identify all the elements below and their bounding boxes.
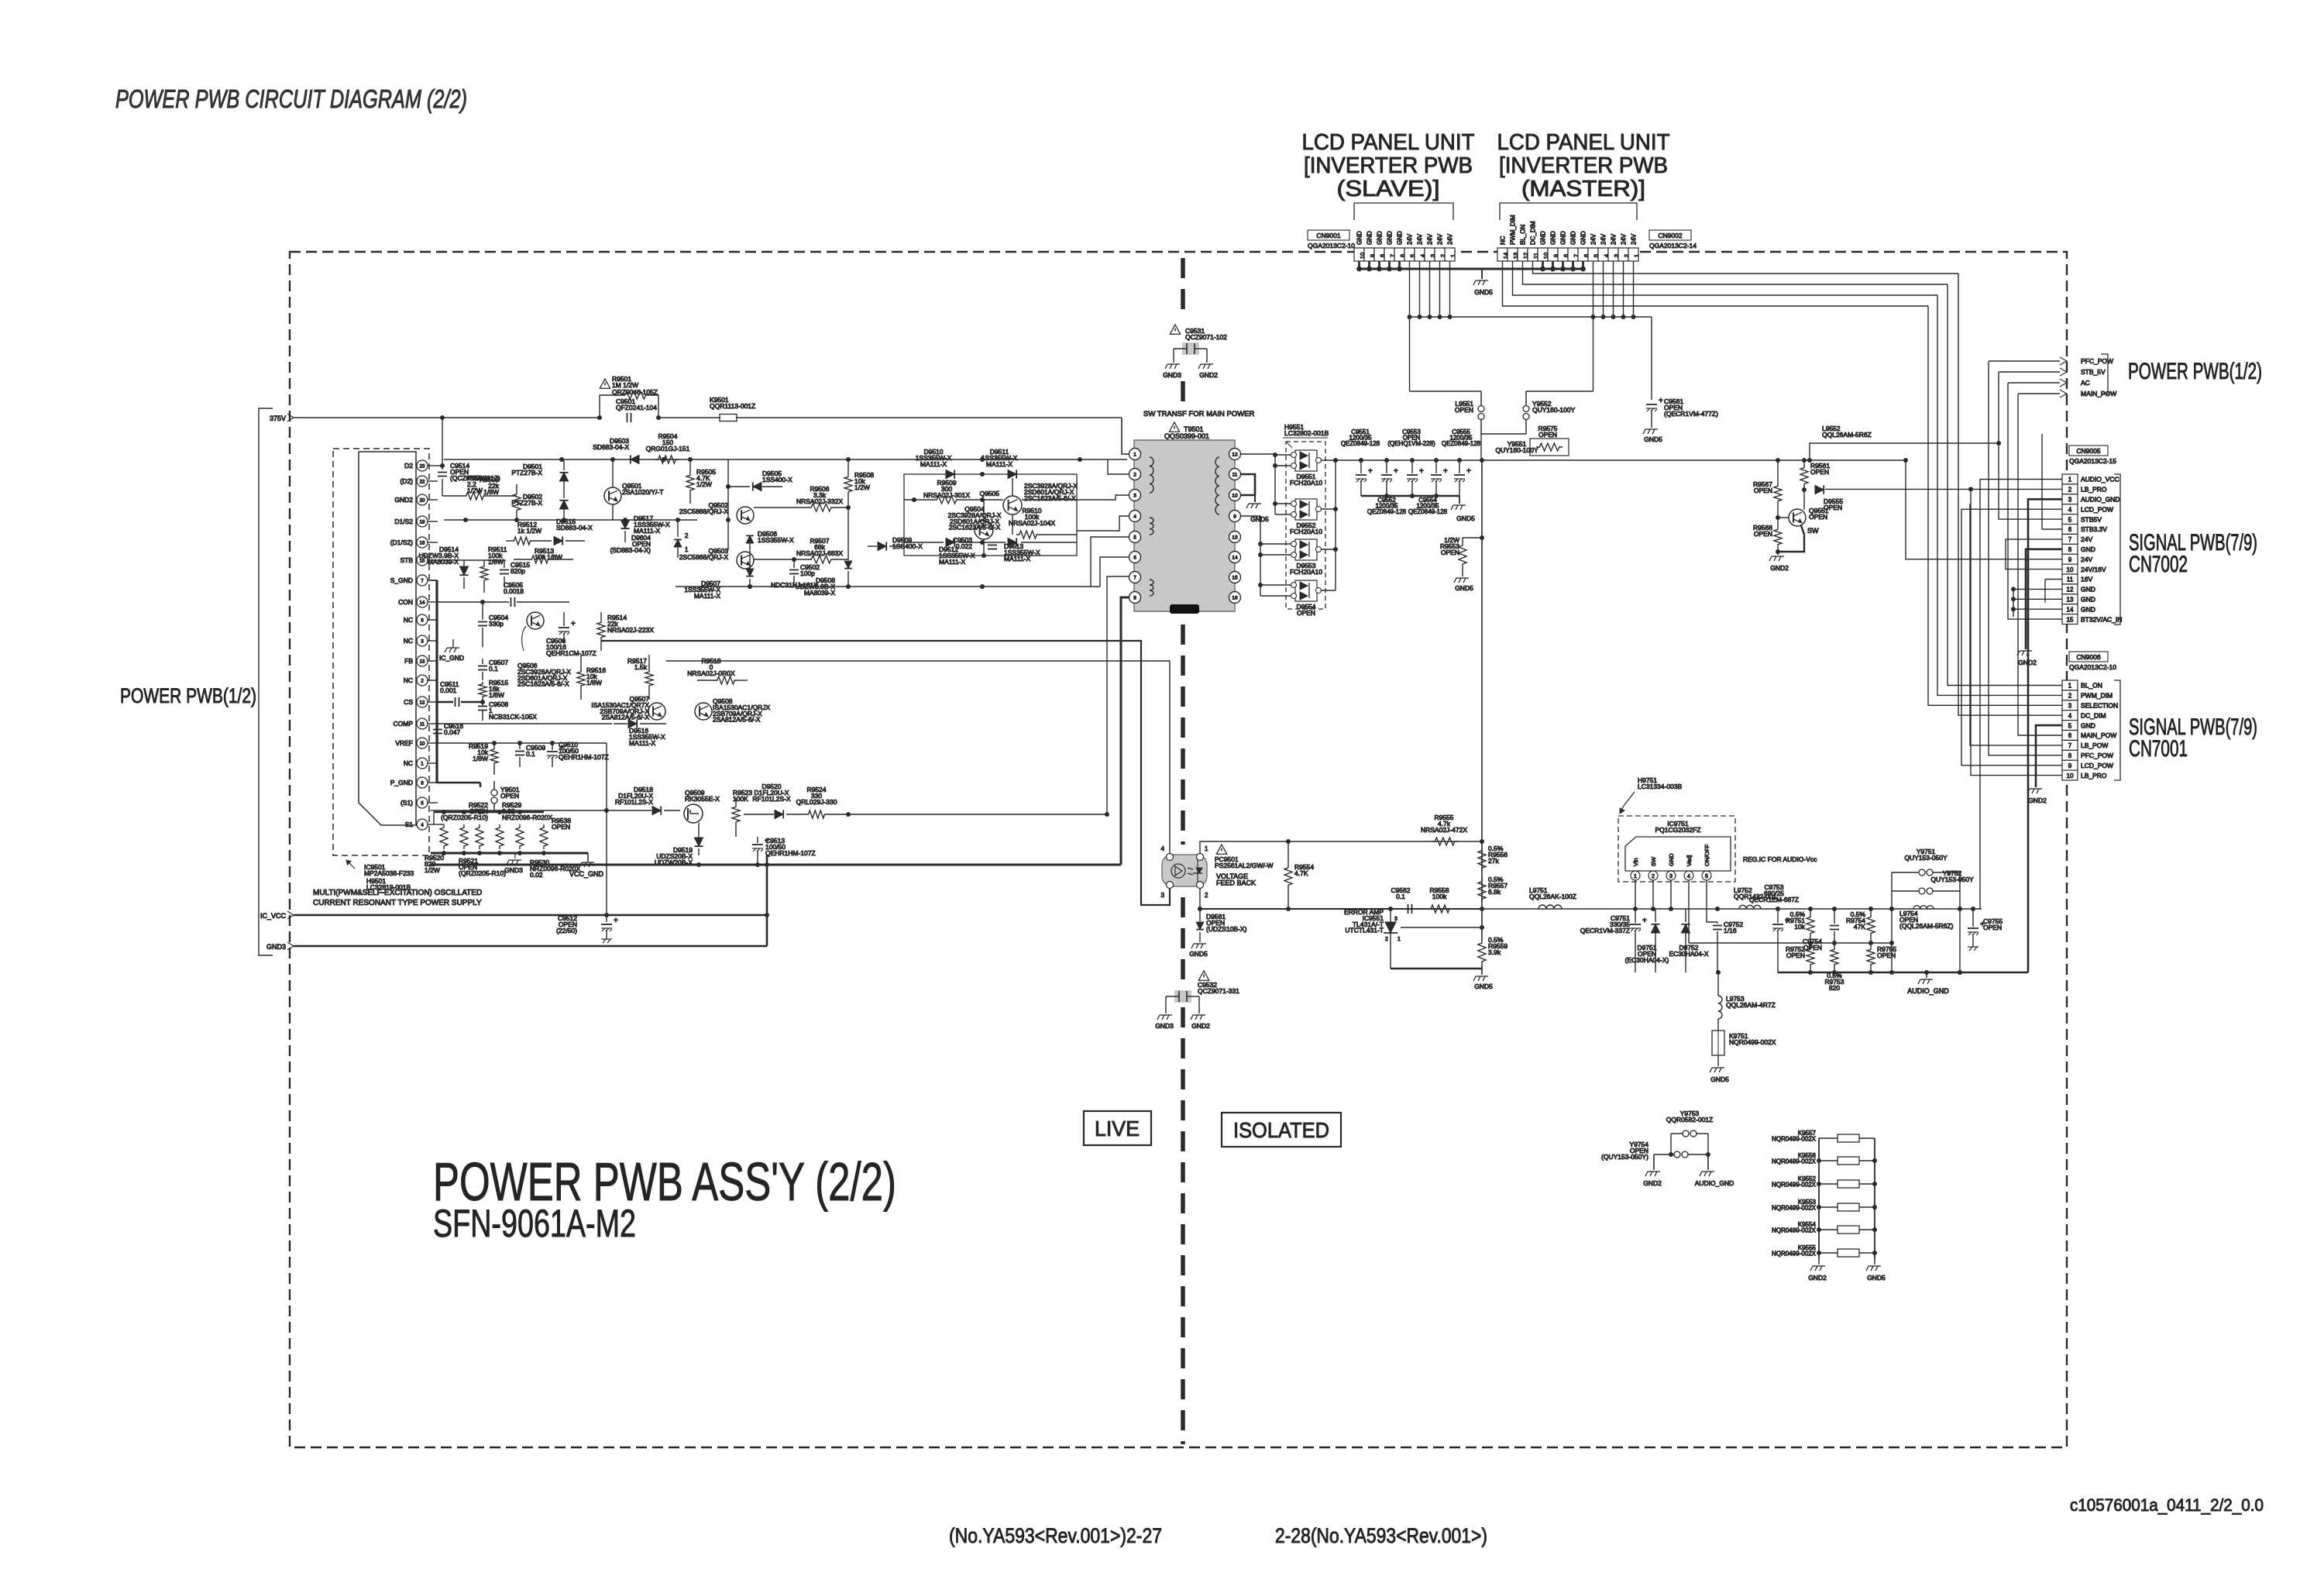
wire pc9501 pin1 top rail bbox=[1200, 841, 1288, 853]
wire R9501 parallel loop bbox=[600, 395, 621, 418]
bracket master connector bbox=[1500, 203, 1637, 220]
svg-text:23: 23 bbox=[420, 465, 425, 470]
pin D1/S2 of IC9501 bbox=[417, 516, 428, 527]
svg-text:STB5V: STB5V bbox=[2081, 515, 2102, 523]
resistor R9523 bbox=[732, 804, 740, 824]
pin 4 of T9501 bbox=[1129, 511, 1141, 522]
wire AUDIO_GND thick bbox=[2028, 499, 2062, 972]
svg-text:3: 3 bbox=[1669, 874, 1673, 879]
svg-text:330p: 330p bbox=[489, 620, 504, 628]
diode D9505 bbox=[753, 482, 761, 490]
svg-text:CURRENT RESONANT TYPE POWER SU: CURRENT RESONANT TYPE POWER SUPPLY bbox=[313, 899, 482, 907]
box drive sub-circuit bbox=[904, 474, 1077, 556]
pin STB of IC9501 bbox=[417, 555, 428, 566]
fuse K9553 bbox=[1819, 1206, 1838, 1208]
resistor R9557 bbox=[1478, 879, 1486, 902]
svg-text:Vadj: Vadj bbox=[1686, 855, 1693, 866]
svg-text:1: 1 bbox=[2068, 683, 2072, 690]
resistor R9517 bbox=[645, 669, 653, 688]
resistor R9515 bbox=[479, 682, 486, 699]
resistor R9754 bbox=[1867, 914, 1875, 936]
pin NC of IC9501 bbox=[417, 675, 428, 686]
svg-text:QQS0399-001: QQS0399-001 bbox=[1164, 432, 1209, 440]
svg-text:MAIN_POW: MAIN_POW bbox=[2081, 731, 2116, 739]
svg-text:CON: CON bbox=[398, 598, 413, 606]
pin 15 of T9501 bbox=[1229, 572, 1241, 583]
svg-text:OPEN: OPEN bbox=[1455, 406, 1473, 414]
wire vref drop bbox=[606, 743, 607, 913]
svg-text:(No.YA593<Rev.001>)2-27: (No.YA593<Rev.001>)2-27 bbox=[949, 1524, 1162, 1547]
svg-text:GND5: GND5 bbox=[1644, 435, 1662, 443]
svg-text:SELECTION: SELECTION bbox=[2081, 702, 2118, 710]
bracket left power pwb bbox=[259, 408, 273, 955]
wire drive box bottom bbox=[904, 542, 944, 543]
svg-text:(D2): (D2) bbox=[400, 477, 413, 485]
winding primary lower bbox=[1150, 580, 1153, 596]
svg-text:(QRZ0205-R10): (QRZ0205-R10) bbox=[459, 869, 506, 877]
svg-text:GND5: GND5 bbox=[1189, 950, 1208, 958]
svg-text:(UDZS10B-X): (UDZS10B-X) bbox=[1206, 925, 1247, 933]
diode D9501 bbox=[559, 473, 568, 481]
diode pair D9553 bbox=[1295, 539, 1317, 560]
svg-text:11: 11 bbox=[1232, 473, 1238, 478]
fuse K9501 bbox=[720, 415, 737, 422]
svg-text:24V/16V: 24V/16V bbox=[2081, 566, 2106, 573]
svg-text:DC_DIM: DC_DIM bbox=[2081, 711, 2106, 719]
transistor Q9503 bbox=[737, 552, 754, 569]
svg-text:MP2A5038-F233: MP2A5038-F233 bbox=[364, 869, 414, 877]
transistor Q9502 bbox=[737, 507, 754, 524]
wire STB3.3V stub bbox=[2042, 528, 2062, 530]
pin CON of IC9501 bbox=[417, 597, 428, 607]
wire D2 drop bbox=[442, 418, 443, 466]
svg-text:1/8W: 1/8W bbox=[586, 679, 602, 686]
svg-text:10: 10 bbox=[2067, 566, 2074, 573]
svg-text:3: 3 bbox=[2068, 703, 2072, 710]
svg-text:LB_PRO: LB_PRO bbox=[2081, 486, 2107, 494]
wire Q9551 emitter bbox=[1778, 525, 1804, 552]
svg-text:24V: 24V bbox=[1600, 233, 1607, 245]
zener D9561 bbox=[1196, 922, 1204, 930]
svg-text:2SC5868/QRJ-X: 2SC5868/QRJ-X bbox=[679, 508, 729, 515]
svg-text:BL_ON: BL_ON bbox=[1520, 225, 1527, 245]
svg-text:0.1: 0.1 bbox=[489, 665, 498, 673]
svg-text:3: 3 bbox=[1133, 494, 1136, 499]
wire resistor bank bottom bus thick bbox=[431, 852, 588, 855]
wire error amp gnd bbox=[1391, 968, 1482, 969]
svg-text:12: 12 bbox=[1232, 452, 1238, 458]
svg-text:+: + bbox=[1642, 917, 1647, 925]
svg-text:1: 1 bbox=[685, 546, 689, 553]
diode D9517 bbox=[621, 520, 629, 528]
ground GND5 R9553 bbox=[1454, 578, 1469, 583]
svg-text:OPEN: OPEN bbox=[1810, 468, 1829, 476]
resistor R9561 bbox=[1800, 465, 1808, 487]
wire GND pins 12 13 14 bbox=[2013, 589, 2014, 609]
svg-text:QGA2013C2-10: QGA2013C2-10 bbox=[1308, 242, 1355, 249]
svg-text:(22/50): (22/50) bbox=[556, 927, 577, 934]
wire pc9501 pin4 feed bbox=[666, 661, 1170, 853]
ground AUDIO_GND bbox=[1926, 972, 1927, 978]
svg-text:GND2: GND2 bbox=[1191, 1022, 1210, 1030]
svg-text:NRSA02J-301X: NRSA02J-301X bbox=[923, 491, 970, 499]
pin P_GND of IC9501 bbox=[417, 777, 428, 788]
svg-text:QEZ0849-128: QEZ0849-128 bbox=[1341, 440, 1380, 447]
svg-text:6: 6 bbox=[2068, 526, 2072, 533]
svg-text:12: 12 bbox=[2067, 587, 2074, 594]
resistor R9554 bbox=[1284, 865, 1292, 888]
svg-text:GND2: GND2 bbox=[1808, 1274, 1827, 1282]
resistor R9507 bbox=[808, 556, 834, 563]
ground GND2 Q9551 bbox=[1769, 556, 1784, 561]
capacitor C9532 isolation bbox=[1198, 971, 1208, 980]
resistor R9504 bbox=[655, 456, 679, 463]
svg-text:+: + bbox=[571, 620, 576, 628]
svg-text:NQR0499-002X: NQR0499-002X bbox=[1772, 1158, 1817, 1165]
svg-text:+: + bbox=[1466, 467, 1471, 476]
wire box to pin3 bbox=[1077, 495, 1129, 500]
svg-text:12: 12 bbox=[420, 701, 425, 706]
svg-text:(QUY153-050Y): (QUY153-050Y) bbox=[1601, 1153, 1648, 1161]
pin 4 Vadj of IC9751 bbox=[1684, 871, 1693, 880]
svg-text:LCD PANEL UNIT: LCD PANEL UNIT bbox=[1302, 130, 1475, 155]
svg-text:BL_ON: BL_ON bbox=[2081, 682, 2102, 690]
svg-text:GND: GND bbox=[2081, 586, 2095, 594]
svg-text:GND2: GND2 bbox=[1770, 564, 1789, 572]
svg-text:GND5: GND5 bbox=[1455, 584, 1473, 592]
svg-text:CS: CS bbox=[404, 698, 413, 706]
svg-text:GND3: GND3 bbox=[1163, 371, 1181, 379]
ground GND5 K9751 bbox=[1710, 1068, 1724, 1072]
svg-text:13: 13 bbox=[1232, 535, 1238, 541]
svg-text:1: 1 bbox=[2068, 477, 2072, 483]
wire q9502 col bbox=[727, 459, 729, 550]
svg-text:24V: 24V bbox=[1590, 233, 1597, 245]
wire bundle vertical LB_POW bbox=[1970, 504, 2062, 745]
ground GND2 below CN9005 bbox=[2017, 651, 2032, 656]
wire CN9002 24v stubs bbox=[1593, 261, 1594, 317]
capacitor C9753 electrolytic bbox=[1772, 924, 1783, 925]
pin 9 of T9501 bbox=[1229, 511, 1241, 522]
pin (S1) of IC9501 bbox=[417, 797, 428, 808]
resistor R9518 bbox=[714, 676, 737, 684]
svg-text:NQR0499-002X: NQR0499-002X bbox=[1772, 1181, 1817, 1188]
wire 375V rail bbox=[294, 417, 600, 418]
svg-text:3: 3 bbox=[2068, 497, 2072, 504]
resistor R9553 bbox=[1459, 542, 1466, 567]
pin NC of IC9501 bbox=[417, 758, 428, 769]
wire cap bank gnd bus bbox=[1361, 495, 1459, 497]
resistor R9568 bbox=[1774, 527, 1782, 547]
svg-text:7: 7 bbox=[2068, 742, 2072, 749]
svg-text:IC_GND: IC_GND bbox=[439, 654, 464, 662]
capacitor C9505 bbox=[511, 597, 512, 607]
svg-text:QECR1VM-337Z: QECR1VM-337Z bbox=[1580, 927, 1630, 934]
capacitor C9754 bbox=[1830, 925, 1839, 927]
wire bundle vertical AC bbox=[2008, 383, 2062, 619]
transistor Q9507 bbox=[648, 703, 665, 720]
svg-text:SFN-9061A-M2: SFN-9061A-M2 bbox=[433, 1202, 636, 1245]
svg-text:GND2: GND2 bbox=[2028, 797, 2047, 804]
svg-text:2: 2 bbox=[1385, 937, 1388, 942]
pin CS of IC9501 bbox=[417, 697, 428, 707]
svg-text:MA8039-X: MA8039-X bbox=[804, 589, 835, 597]
svg-text:(QECR1VM-477Z): (QECR1VM-477Z) bbox=[1664, 410, 1718, 418]
svg-text:AUDIO_VCC: AUDIO_VCC bbox=[2081, 476, 2119, 483]
svg-text:(EC30HA04-X): (EC30HA04-X) bbox=[1625, 956, 1669, 964]
wire bundle vertical AUDIO_VCC bbox=[1980, 480, 2062, 910]
svg-text:6: 6 bbox=[1133, 556, 1136, 561]
svg-text:1/2W: 1/2W bbox=[425, 866, 440, 874]
svg-text:22: 22 bbox=[420, 480, 425, 485]
svg-text:20: 20 bbox=[420, 499, 425, 504]
svg-text:QQR1113-001Z: QQR1113-001Z bbox=[710, 402, 755, 410]
wire secondary sense bus vertical bbox=[1481, 460, 1483, 940]
svg-text:MA111-X: MA111-X bbox=[939, 558, 966, 566]
svg-text:16: 16 bbox=[1232, 596, 1238, 601]
wire bundle vertical 1 BL_ON bbox=[1948, 284, 2062, 686]
connector CN9001 designator bbox=[1308, 230, 1349, 240]
svg-text:MA111-X: MA111-X bbox=[1004, 555, 1031, 563]
diode D9509 bbox=[878, 542, 886, 550]
wire bundle vertical PFC_POW bbox=[1989, 361, 2062, 755]
resistor R9753 bbox=[1831, 947, 1838, 967]
resistor R9519 bbox=[490, 747, 498, 766]
wire P_GND thick bus bbox=[438, 782, 480, 784]
svg-text:FCH20A10: FCH20A10 bbox=[1290, 568, 1322, 576]
svg-text:PQ1CG2032FZ: PQ1CG2032FZ bbox=[1655, 826, 1700, 834]
svg-text:14: 14 bbox=[1232, 556, 1238, 561]
wire pin8 thick return bbox=[1121, 597, 1129, 865]
diode pair D9552 bbox=[1295, 499, 1317, 520]
ground GND5 C9561 bbox=[1643, 429, 1658, 434]
svg-text:QGA2013C2-14: QGA2013C2-14 bbox=[1649, 242, 1697, 249]
wire bundle vertical 24V bbox=[1906, 460, 2062, 559]
wire switch row bbox=[433, 810, 435, 811]
svg-text:SD883-04-X: SD883-04-X bbox=[556, 524, 593, 532]
svg-text:GND5: GND5 bbox=[1867, 1274, 1886, 1282]
svg-text:2SC1623A/5-6/-X: 2SC1623A/5-6/-X bbox=[517, 680, 569, 688]
ground GND3 small bbox=[514, 853, 516, 859]
bracket CN7001 bbox=[2114, 680, 2120, 780]
wire pc9501 pin2 drop bbox=[1199, 889, 1201, 909]
wire 16V stub bbox=[2045, 579, 2062, 580]
svg-text:14: 14 bbox=[420, 601, 425, 606]
svg-text:NQR0499-002X: NQR0499-002X bbox=[1772, 1227, 1817, 1234]
wire jumper verticals bbox=[1891, 872, 1893, 972]
jumper Y9753 bbox=[1671, 1133, 1683, 1134]
svg-text:NRSA02J-0R0X: NRSA02J-0R0X bbox=[687, 669, 735, 677]
pin 7 of T9501 bbox=[1129, 572, 1141, 583]
wire audio rail bbox=[1482, 908, 1982, 910]
svg-text:VCC_GND: VCC_GND bbox=[569, 870, 604, 878]
svg-text:2: 2 bbox=[1133, 473, 1136, 478]
ground GND2 below CN9006 bbox=[2027, 789, 2042, 793]
resistor R9510 bbox=[1016, 531, 1040, 539]
svg-text:GND5: GND5 bbox=[1456, 514, 1475, 522]
svg-text:[INVERTER PWB: [INVERTER PWB bbox=[1499, 153, 1668, 178]
wire switch row to transformer pin7 bbox=[827, 814, 1107, 815]
svg-text:4: 4 bbox=[1687, 874, 1690, 879]
svg-text:AUDIO_GND: AUDIO_GND bbox=[1907, 987, 1949, 995]
svg-text:(QQL26AM-5R6Z): (QQL26AM-5R6Z) bbox=[1899, 922, 1954, 930]
svg-text:5: 5 bbox=[1133, 535, 1136, 541]
diode D9502 bbox=[559, 501, 568, 509]
svg-text:SW: SW bbox=[1650, 856, 1657, 866]
bracket right power pwb bbox=[2101, 354, 2108, 394]
svg-text:LCD PANEL UNIT: LCD PANEL UNIT bbox=[1497, 130, 1670, 155]
zener D9508 bbox=[844, 561, 852, 569]
ground GND3 C9532 bbox=[1157, 1015, 1172, 1020]
jumper Y9501 bbox=[493, 781, 495, 790]
svg-text:OPEN: OPEN bbox=[1786, 951, 1805, 959]
transistor Q9551 bbox=[1789, 509, 1806, 526]
svg-text:(QEHQ1VM-228): (QEHQ1VM-228) bbox=[1387, 440, 1435, 447]
svg-text:QEZ0849-128: QEZ0849-128 bbox=[1442, 440, 1481, 447]
inductor L9752 bbox=[1739, 905, 1761, 909]
svg-text:NC: NC bbox=[404, 616, 413, 624]
wire diode outputs bus bbox=[1322, 459, 1336, 461]
diode pack H9551 dashed box bbox=[1286, 442, 1325, 609]
svg-text:0.02: 0.02 bbox=[530, 871, 543, 879]
svg-text:0.047: 0.047 bbox=[444, 728, 461, 736]
svg-text:QEZ0849-128: QEZ0849-128 bbox=[1408, 508, 1448, 515]
jumper L9551 bbox=[1480, 391, 1482, 406]
capacitor C9513 electrolytic bbox=[752, 844, 763, 845]
pin D2 of IC9501 bbox=[417, 460, 428, 471]
svg-text:19: 19 bbox=[420, 521, 425, 525]
svg-text:27k: 27k bbox=[1488, 857, 1499, 865]
resistor R9556 bbox=[1478, 848, 1486, 871]
svg-text:DC_DIM: DC_DIM bbox=[1530, 221, 1537, 245]
capacitor C9501 bbox=[627, 413, 628, 422]
svg-text:REG.IC FOR AUDIO-Vcc: REG.IC FOR AUDIO-Vcc bbox=[1743, 855, 1817, 863]
svg-text:GND: GND bbox=[1570, 231, 1577, 245]
svg-text:47K: 47K bbox=[1854, 923, 1865, 931]
wire jumper ends bbox=[1670, 1134, 1672, 1154]
transistor Q9501 bbox=[604, 487, 621, 504]
svg-text:NQR0499-002X: NQR0499-002X bbox=[1772, 1204, 1817, 1211]
diode D9751 bbox=[1651, 924, 1659, 933]
pin FB of IC9501 bbox=[417, 656, 428, 666]
wire 24v bus bbox=[1409, 316, 1652, 318]
capacitor C9752 bbox=[1713, 925, 1722, 927]
diode D9520 bbox=[775, 810, 783, 818]
transistor Q9508 bbox=[695, 703, 712, 720]
svg-text:GND: GND bbox=[2081, 596, 2095, 604]
wire CN9001 24v stubs bbox=[1409, 261, 1411, 317]
svg-text:FCH20A10: FCH20A10 bbox=[1290, 479, 1322, 487]
error amp IC9551 TL431 bbox=[1385, 922, 1396, 933]
svg-text:RF101L2S-X: RF101L2S-X bbox=[615, 798, 653, 806]
svg-text:CN9002: CN9002 bbox=[1658, 232, 1682, 239]
svg-text:SW: SW bbox=[1807, 527, 1819, 535]
svg-text:2SA812A/5-6/-X: 2SA812A/5-6/-X bbox=[602, 714, 650, 721]
resistor R9509 bbox=[933, 496, 960, 504]
label LIVE box bbox=[1084, 1111, 1151, 1145]
fuse K9555 bbox=[1819, 1252, 1838, 1254]
svg-text:1/8W: 1/8W bbox=[473, 755, 488, 762]
capacitor C9561 electrolytic bbox=[1651, 317, 1652, 400]
svg-text:24V: 24V bbox=[2081, 556, 2092, 563]
svg-text:S_GND: S_GND bbox=[390, 576, 413, 584]
svg-text:MA111-X: MA111-X bbox=[694, 592, 721, 600]
svg-text:QUY160-100Y: QUY160-100Y bbox=[1532, 406, 1576, 414]
svg-text:10: 10 bbox=[420, 742, 425, 747]
svg-text:NQR0499-002X: NQR0499-002X bbox=[1729, 1038, 1776, 1046]
svg-text:MULTI(PWM&SELF-EXCITATION) OSC: MULTI(PWM&SELF-EXCITATION) OSCILLATED bbox=[313, 889, 482, 897]
ground GND2 Y9754 bbox=[1645, 1172, 1660, 1176]
capacitor C9751 electrolytic bbox=[1630, 924, 1641, 925]
svg-text:D1/S2: D1/S2 bbox=[394, 518, 413, 525]
svg-text:9: 9 bbox=[2068, 556, 2072, 563]
transformer T9501 label bbox=[1169, 422, 1179, 432]
winding primary aux bbox=[1150, 518, 1153, 535]
svg-text:Vin: Vin bbox=[1632, 858, 1639, 866]
svg-text:24V: 24V bbox=[1631, 233, 1638, 245]
svg-text:5: 5 bbox=[1705, 874, 1708, 879]
pin 5 ON/OFF of IC9751 bbox=[1702, 871, 1711, 880]
transistor Q9504 bbox=[975, 521, 993, 539]
svg-text:UTCTL431-T: UTCTL431-T bbox=[1345, 927, 1384, 934]
pin COMP of IC9501 bbox=[417, 718, 428, 729]
resistor R9508 bbox=[844, 474, 852, 494]
svg-text:MA111-X: MA111-X bbox=[629, 739, 656, 747]
pin 14 of T9501 bbox=[1229, 552, 1241, 563]
svg-text:LC32802-001B: LC32802-001B bbox=[1284, 429, 1329, 437]
svg-text:1: 1 bbox=[1633, 254, 1640, 257]
svg-text:P_GND: P_GND bbox=[390, 779, 413, 786]
svg-text:4: 4 bbox=[2068, 712, 2072, 719]
svg-text:+: + bbox=[1368, 467, 1373, 476]
resistor R9501 bbox=[621, 391, 649, 399]
port STB_5V bbox=[2060, 368, 2067, 376]
diode D9503 bbox=[631, 455, 639, 463]
wire GND pin5 CN9006 thick bbox=[2036, 725, 2062, 787]
svg-text:(S1): (S1) bbox=[401, 799, 413, 807]
wire S1 row bbox=[438, 824, 444, 825]
svg-text:7: 7 bbox=[2068, 536, 2072, 543]
svg-text:8: 8 bbox=[2068, 752, 2072, 759]
separator dashed line LIVE/ISOLATED bbox=[1181, 258, 1185, 319]
wire bundle vertical MAIN_POW bbox=[2018, 394, 2062, 735]
capacitor C9506 electrolytic bbox=[559, 627, 569, 628]
diode pair D9554 bbox=[1295, 580, 1317, 601]
wire CS row thick bbox=[438, 701, 453, 704]
svg-text:+: + bbox=[1419, 467, 1424, 476]
svg-text:4.7K: 4.7K bbox=[1294, 869, 1308, 877]
jumper Y9754 bbox=[1654, 1154, 1674, 1155]
port PFC_POW bbox=[2060, 357, 2067, 365]
transformer T9501 body bbox=[1134, 440, 1235, 611]
svg-text:PWM_DIM: PWM_DIM bbox=[1510, 215, 1517, 245]
svg-text:+: + bbox=[614, 917, 618, 925]
svg-text:QUY153-050Y: QUY153-050Y bbox=[1904, 854, 1948, 862]
svg-text:0.001: 0.001 bbox=[440, 686, 457, 694]
svg-text:PWM_DIM: PWM_DIM bbox=[2081, 692, 2113, 700]
svg-text:100p: 100p bbox=[800, 569, 815, 577]
pin 3 GND of IC9751 bbox=[1666, 871, 1676, 880]
svg-text:1SS400-X: 1SS400-X bbox=[762, 476, 792, 483]
svg-text:18: 18 bbox=[420, 542, 425, 546]
svg-text:RF101L2S-X: RF101L2S-X bbox=[752, 795, 790, 803]
svg-text:GND: GND bbox=[1580, 231, 1587, 245]
ground GND5 cap bank bbox=[1451, 505, 1466, 510]
svg-text:6.8k: 6.8k bbox=[1488, 888, 1501, 896]
svg-text:(SD883-04-X): (SD883-04-X) bbox=[610, 546, 651, 554]
svg-text:PS2561AL2/GW/-W: PS2561AL2/GW/-W bbox=[1215, 862, 1274, 869]
svg-text:GND2: GND2 bbox=[394, 496, 413, 504]
